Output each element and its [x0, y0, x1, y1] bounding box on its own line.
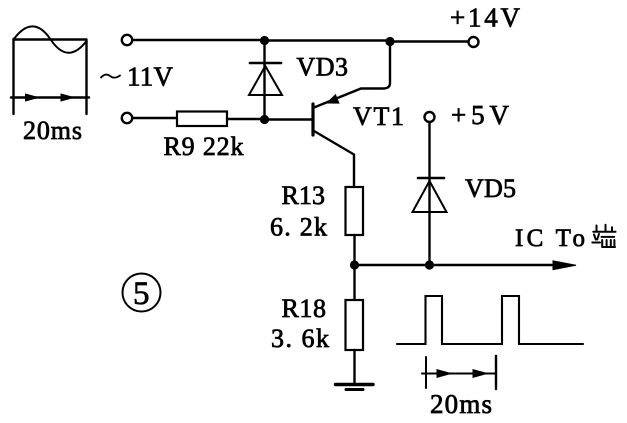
node: top input terminal — [122, 35, 132, 45]
node: +14V terminal — [469, 37, 479, 47]
transistor VT1 collector wire — [314, 131, 354, 187]
input sine wave — [14, 26, 87, 52]
diode VD5 triangle — [413, 181, 447, 212]
diode VD5 cathode bar — [418, 177, 444, 180]
junction dot top rail left — [260, 36, 269, 45]
svg-text:VD5: VD5 — [465, 174, 516, 203]
svg-text:+14V: +14V — [450, 3, 521, 33]
wire output node to R18 — [353, 265, 355, 300]
output dimension line — [422, 373, 496, 375]
wire top rail left — [133, 39, 265, 41]
wire input to R9 — [133, 117, 178, 119]
junction dot top rail right — [385, 37, 394, 46]
svg-text:VD3: VD3 — [297, 53, 349, 82]
wire base node to VT1 — [264, 118, 312, 120]
svg-text:11V: 11V — [127, 62, 174, 92]
wire R9 to base node — [227, 118, 264, 120]
svg-text:+5V: +5V — [451, 100, 510, 130]
arrowhead IC output — [553, 261, 576, 270]
svg-text:VT1: VT1 — [353, 102, 404, 131]
junction dot output node — [350, 260, 359, 269]
diode VD3 triangle — [249, 66, 282, 95]
figure number 5 circled — [123, 274, 161, 312]
svg-text:20ms: 20ms — [430, 389, 492, 419]
input waveform box left vertical — [12, 39, 14, 114]
square wave output waveform — [397, 296, 583, 344]
junction dot VD5 output — [425, 260, 434, 269]
input dimension arrow 1 — [26, 94, 39, 101]
input waveform dimension line — [11, 96, 89, 98]
resistor R13 body — [346, 187, 364, 235]
wire R13 to output node — [353, 235, 355, 265]
output dimension arrow 1 — [437, 370, 451, 378]
resistor R18 body — [346, 300, 364, 350]
transistor VT1 base bar — [311, 104, 314, 135]
wire VD3 vertical — [263, 40, 265, 120]
junction dot base node — [260, 115, 269, 124]
wire R18 to ground — [353, 350, 355, 384]
svg-text:R13: R13 — [282, 181, 326, 210]
wire top rail right to +14V — [390, 40, 468, 42]
transistor VT1 emitter wire — [314, 42, 390, 108]
diode VD3 cathode bar — [250, 62, 281, 65]
wire +5V to VD5 node — [428, 122, 430, 265]
output dimension right tick — [495, 356, 497, 389]
output dimension left tick — [425, 357, 427, 388]
wire output line to IC — [355, 264, 563, 266]
svg-text:5: 5 — [133, 276, 150, 312]
svg-text:R18: R18 — [282, 294, 327, 323]
tilde of ~11V — [101, 75, 120, 78]
node: +5V terminal — [425, 112, 435, 122]
ground — [336, 383, 374, 386]
input waveform box top line — [14, 38, 87, 40]
input waveform box right vertical — [85, 40, 87, 114]
transistor VT1 emitter arrow — [327, 95, 339, 103]
label Chinese duan character — [592, 225, 615, 247]
svg-text:20ms: 20ms — [23, 116, 82, 145]
wire top rail middle — [264, 39, 390, 41]
node: bottom input terminal — [122, 113, 132, 123]
resistor R9 body — [177, 112, 227, 127]
input dimension arrow 2 — [61, 94, 74, 101]
svg-text:R9 22k: R9 22k — [164, 132, 244, 161]
output dimension arrow 2 — [473, 370, 487, 378]
